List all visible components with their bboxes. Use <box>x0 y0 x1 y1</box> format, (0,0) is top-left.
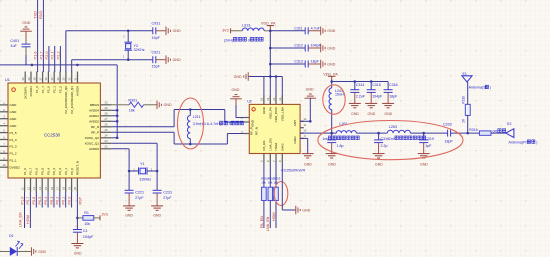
svg-text:AVDD4: AVDD4 <box>89 109 99 113</box>
ground for C221 <box>123 206 135 210</box>
svg-text:P1_6: P1_6 <box>35 86 39 93</box>
inductor L211 3.9nH shunt <box>189 110 191 116</box>
svg-text:BIAS: BIAS <box>281 143 285 150</box>
svg-text:P0_0: P0_0 <box>70 168 74 175</box>
svg-text:15pF: 15pF <box>152 65 161 69</box>
svg-text:HGM: HGM <box>26 215 30 224</box>
svg-text:P0_6: P0_6 <box>35 168 39 175</box>
svg-text:RF_N: RF_N <box>255 127 259 135</box>
svg-text:P0.3: P0.3 <box>50 197 54 205</box>
svg-text:104pF: 104pF <box>311 44 322 48</box>
U2 right pin stubs <box>300 121 304 138</box>
annotation big ellipse output filter <box>318 121 463 160</box>
annotation ellipse around R253 <box>274 182 288 206</box>
svg-text:PA_EN: PA_EN <box>260 216 264 228</box>
svg-text:0: 0 <box>229 122 231 126</box>
svg-text:10: 10 <box>3 163 6 167</box>
svg-text:): ) <box>536 140 537 144</box>
svg-text:U2: U2 <box>247 100 252 104</box>
svg-text:C320: C320 <box>443 122 452 126</box>
wire U2 bottom pin 3 <box>275 163 277 187</box>
resistor R252 <box>268 187 273 200</box>
inductor L263 2nH <box>387 130 410 133</box>
wire pin9 to GND <box>300 137 308 139</box>
svg-text:32MHz: 32MHz <box>139 178 151 182</box>
svg-text:14: 14 <box>272 97 276 100</box>
svg-text:GND: GND <box>173 58 181 62</box>
capacitor C318 2.2p <box>378 133 380 140</box>
svg-text:RBIAS: RBIAS <box>90 103 99 107</box>
svg-text:P1_3: P1_3 <box>10 145 17 149</box>
svg-text:3V3: 3V3 <box>102 212 108 216</box>
capacitor C319 1pF <box>423 133 425 140</box>
ground for U2 pin5 <box>296 206 300 215</box>
svg-text:P1_0: P1_0 <box>23 168 27 175</box>
svg-text:GND: GND <box>22 21 30 25</box>
svg-text:3.9nH(3.6-4.7nH): 3.9nH(3.6-4.7nH) <box>193 122 222 126</box>
wire P0.0 column <box>71 192 73 208</box>
svg-text:104pF: 104pF <box>372 95 383 99</box>
svg-text:19: 19 <box>67 187 71 190</box>
wire RF main line <box>300 132 336 134</box>
svg-text:GND: GND <box>293 136 297 144</box>
svg-text:3V3: 3V3 <box>222 29 228 33</box>
wire U2 bottom pin 2 <box>269 163 271 187</box>
svg-text:GND: GND <box>327 46 335 50</box>
junction dots on bus <box>31 64 34 67</box>
wire TXD column <box>37 0 39 72</box>
svg-text:36: 36 <box>44 77 48 80</box>
svg-text:VDD_LNA: VDD_LNA <box>281 106 285 121</box>
capacitor C313 18pF <box>305 61 308 68</box>
wire XOSC32K top <box>65 31 67 72</box>
svg-text:ANT: ANT <box>293 120 297 126</box>
capacitor C317 1.8p <box>331 133 333 140</box>
svg-text:GND: GND <box>10 103 18 107</box>
capacitor C401 <box>22 44 31 47</box>
ground for C318 <box>373 154 385 158</box>
svg-text:12: 12 <box>26 187 30 190</box>
svg-text:AVDD1: AVDD1 <box>89 114 99 118</box>
wire XOSC_Q2 to Y1 <box>112 142 158 144</box>
svg-text:C921: C921 <box>152 50 161 54</box>
svg-text:32: 32 <box>67 77 71 80</box>
svg-text:C1: C1 <box>83 229 88 233</box>
svg-text:GND: GND <box>304 162 312 166</box>
svg-text:P0.1: P0.1 <box>61 197 65 205</box>
crystal Y2 32KHz <box>127 31 129 42</box>
svg-text:27: 27 <box>105 117 108 121</box>
svg-text:Y1: Y1 <box>140 162 145 166</box>
svg-text:P1_4: P1_4 <box>10 138 17 142</box>
svg-text:P0_4: P0_4 <box>46 168 50 175</box>
svg-text:R301: R301 <box>128 98 137 102</box>
ground for D1 <box>32 247 36 256</box>
U1 right pin stubs <box>100 105 111 149</box>
wire below R252 <box>269 201 271 228</box>
resistor R253 <box>274 187 279 200</box>
wire C311 row <box>270 30 305 32</box>
svg-text:P0.0: P0.0 <box>67 197 71 205</box>
svg-text:GND: GND <box>153 214 161 218</box>
ground for C311 <box>321 27 325 36</box>
svg-text:CC2530: CC2530 <box>44 133 61 138</box>
ground left of U2 top rail <box>244 72 248 81</box>
svg-text:4.7uF: 4.7uF <box>311 26 321 30</box>
svg-text:10k: 10k <box>261 181 266 185</box>
wire below R251 <box>263 201 265 228</box>
svg-text:13: 13 <box>32 187 36 190</box>
svg-text:RF_P: RF_P <box>91 131 99 135</box>
svg-text:35: 35 <box>50 77 54 80</box>
resistor R1 10k <box>77 217 83 219</box>
wire P2_2 column <box>59 46 61 72</box>
wire RF_P run <box>112 131 175 133</box>
svg-text:27pF: 27pF <box>135 196 144 200</box>
svg-text:32KHz: 32KHz <box>134 48 145 52</box>
svg-text:C316: C316 <box>389 83 398 87</box>
wire RXD column <box>42 0 44 72</box>
wire P0_7 column <box>29 192 31 228</box>
U2 left pin stubs <box>243 118 249 134</box>
svg-text:P2.2: P2.2 <box>55 51 60 59</box>
capacitor C221 27pF <box>128 171 130 190</box>
svg-text:DVDD1: DVDD1 <box>29 86 33 97</box>
svg-text:39: 39 <box>27 77 31 80</box>
wire P0.5 column <box>41 192 43 208</box>
wire XOSC32K bottom <box>71 60 73 72</box>
svg-text:LNA_EN: LNA_EN <box>266 216 270 231</box>
svg-text:34: 34 <box>56 77 60 80</box>
svg-text:1uF: 1uF <box>10 44 17 48</box>
ground for C313 <box>321 60 325 69</box>
svg-text:15nH: 15nH <box>335 93 344 97</box>
svg-text:): ) <box>490 86 491 90</box>
svg-text:37: 37 <box>38 77 42 80</box>
svg-text:40: 40 <box>21 77 25 80</box>
svg-text:15: 15 <box>44 187 48 190</box>
wire P0.2 column <box>59 192 61 208</box>
wire AVDD taps to U1 right pins <box>112 109 118 111</box>
annotation ellipse around L211 <box>178 98 204 149</box>
svg-text:P2_2: P2_2 <box>58 86 62 93</box>
capacitor C231 27pF <box>156 171 158 190</box>
ground for pin9 <box>302 154 314 158</box>
svg-text:GND: GND <box>74 251 82 255</box>
svg-text:C231: C231 <box>163 190 172 194</box>
U2 bottom pin stubs <box>264 154 282 164</box>
svg-text:1pF: 1pF <box>425 144 432 148</box>
svg-text:L313: L313 <box>242 23 250 27</box>
svg-text:GND: GND <box>234 75 242 79</box>
svg-text:C315: C315 <box>372 83 381 87</box>
wire pin12 to GND <box>309 98 311 121</box>
svg-text:38: 38 <box>33 77 37 80</box>
svg-text:13: 13 <box>278 97 282 100</box>
wire C313 row <box>270 63 305 65</box>
crystal Y1 32MHz <box>129 170 138 172</box>
svg-text:29: 29 <box>105 106 108 110</box>
svg-text:10: 10 <box>303 129 306 133</box>
svg-text:P1_5: P1_5 <box>10 131 17 135</box>
svg-text:15: 15 <box>266 97 270 100</box>
svg-text:AVDD6: AVDD6 <box>76 86 80 96</box>
inductor L241 15nH <box>331 82 333 89</box>
wire RESET column <box>76 192 78 218</box>
wire VDD_PA rail <box>332 81 388 83</box>
svg-text:P0_2: P0_2 <box>58 168 62 175</box>
capacitor C921 <box>153 56 156 63</box>
svg-text:2.2uF: 2.2uF <box>356 95 366 99</box>
svg-text:11: 11 <box>304 123 307 127</box>
wire P0.4 column <box>47 192 49 208</box>
svg-text:GND: GND <box>10 124 18 128</box>
svg-text:31: 31 <box>73 77 77 80</box>
wire U2 top rail <box>249 76 283 78</box>
svg-text:P1_1: P1_1 <box>10 159 17 163</box>
svg-text:P2_3/XOSC32K_Q2: P2_3/XOSC32K_Q2 <box>64 86 68 114</box>
ground for C314 <box>349 103 361 107</box>
svg-text:C314: C314 <box>356 83 365 87</box>
svg-text:33: 33 <box>62 77 66 80</box>
svg-text:GND: GND <box>173 29 181 33</box>
svg-text:10k: 10k <box>268 181 273 185</box>
svg-text:GND: GND <box>327 62 335 66</box>
resistor R301 16k <box>112 104 129 106</box>
svg-text:10k: 10k <box>84 222 90 226</box>
svg-text:GND: GND <box>232 88 240 92</box>
svg-text:TXD: TXD <box>32 11 37 19</box>
capacitor C314 2.2uF <box>354 82 356 90</box>
svg-text:C221: C221 <box>135 190 144 194</box>
wire RF_N run <box>112 126 175 128</box>
svg-text:P0.2: P0.2 <box>56 197 60 205</box>
svg-text:RF_P: RF_P <box>250 127 254 135</box>
wire R310 to main line <box>467 115 469 133</box>
svg-text:GND: GND <box>164 103 172 107</box>
svg-text:HGM: HGM <box>274 143 278 151</box>
ground for C231 <box>151 206 163 210</box>
wire U2 pin5 to ground <box>281 163 283 210</box>
svg-text:GND: GND <box>125 214 133 218</box>
svg-text:GND: GND <box>327 29 335 33</box>
svg-text:11: 11 <box>20 187 24 190</box>
svg-text:XOSC_Q1: XOSC_Q1 <box>85 142 100 146</box>
capacitor C315 104pF <box>370 82 372 90</box>
svg-text:12: 12 <box>303 117 306 121</box>
wire P0.6 column <box>35 192 37 208</box>
svg-text:HGM: HGM <box>272 212 276 221</box>
svg-text:18pF: 18pF <box>311 60 320 64</box>
wire P0.3 column <box>53 192 55 208</box>
capacitor C1 104pF <box>73 230 82 233</box>
svg-text:24: 24 <box>105 134 108 138</box>
wire C312 row <box>270 47 305 49</box>
svg-text:GND: GND <box>306 88 314 92</box>
U1 left pin stubs <box>0 105 8 167</box>
svg-text:18pF: 18pF <box>389 95 398 99</box>
ground for C315 <box>365 103 377 107</box>
svg-text:P0.6: P0.6 <box>32 197 36 205</box>
svg-text:P0.7: P0.7 <box>26 197 30 205</box>
svg-text:C318: C318 <box>381 137 390 141</box>
ground for C921 <box>166 55 170 64</box>
svg-text:18pF: 18pF <box>444 140 453 144</box>
svg-text:P0_3: P0_3 <box>52 168 56 175</box>
svg-text:P2_4/XOSC32K_Q1: P2_4/XOSC32K_Q1 <box>70 86 74 114</box>
svg-text:AVDD3: AVDD3 <box>89 147 99 151</box>
U2 top pin stubs <box>264 96 282 105</box>
svg-text:VDD_PA: VDD_PA <box>269 106 273 119</box>
wire R316 to E2 <box>491 132 506 134</box>
inductor L261 1nH <box>336 131 356 134</box>
svg-text:GND: GND <box>375 162 383 166</box>
power port 3V3 at R1 <box>99 215 101 220</box>
svg-text:GND: GND <box>351 112 359 116</box>
svg-text:E2: E2 <box>507 122 511 126</box>
svg-text:P1.0: P1.0 <box>20 197 24 205</box>
wire E1 to R310 <box>467 82 469 104</box>
svg-text:P2.0: P2.0 <box>44 51 49 60</box>
svg-text:26: 26 <box>105 123 108 127</box>
svg-text:P2_1: P2_1 <box>52 86 56 93</box>
svg-text:GND: GND <box>328 162 336 166</box>
svg-text:P0.4: P0.4 <box>44 197 48 205</box>
svg-text:LNA_EN: LNA_EN <box>269 138 273 150</box>
ground for C316 <box>382 103 394 107</box>
ground for C317 <box>326 154 338 158</box>
svg-text:25: 25 <box>105 128 108 132</box>
op-amp U1 (CC2530 MCU body) <box>8 83 100 178</box>
wire XOSC_Q1 to Y1 <box>112 148 130 150</box>
svg-text:104pF: 104pF <box>83 235 94 239</box>
wire GND to U2 pin1 <box>235 105 237 118</box>
wire DCOUPL bus y65 <box>0 64 117 66</box>
wire P0.1 column <box>65 192 67 208</box>
svg-text:P1.6: P1.6 <box>33 51 38 59</box>
wire U2 bottom pin 1 <box>263 163 265 187</box>
svg-text:R310: R310 <box>461 96 465 104</box>
svg-text:18: 18 <box>61 187 65 190</box>
svg-text:16: 16 <box>260 97 264 100</box>
resistor R251 <box>262 187 267 200</box>
svg-text:GND: GND <box>302 208 310 212</box>
svg-text:P0_7: P0_7 <box>29 168 33 175</box>
svg-text:28: 28 <box>105 112 108 116</box>
svg-text:1.8p: 1.8p <box>337 144 344 148</box>
svg-text:23: 23 <box>105 139 108 143</box>
svg-text:P1.7: P1.7 <box>38 51 43 59</box>
svg-text:L263: L263 <box>389 125 397 129</box>
svg-text:GND: GND <box>368 112 376 116</box>
svg-text:XOSC_Q2: XOSC_Q2 <box>85 136 100 140</box>
annotation ellipse around L241 <box>323 85 345 114</box>
svg-text:GND: GND <box>420 162 428 166</box>
svg-text:P1_2: P1_2 <box>10 152 17 156</box>
capacitor C311 4.7uF <box>305 27 308 34</box>
ground for R301 <box>157 101 161 110</box>
svg-text:GND: GND <box>262 106 266 114</box>
svg-text:P2_0: P2_0 <box>47 86 51 93</box>
svg-text:C311: C311 <box>294 26 302 30</box>
svg-text:VDD_BIAS: VDD_BIAS <box>274 107 278 122</box>
svg-text:GND: GND <box>10 117 18 121</box>
svg-text:16: 16 <box>50 187 54 190</box>
svg-text:P0.5: P0.5 <box>38 197 42 205</box>
svg-text:D1: D1 <box>9 234 14 238</box>
svg-text:C313: C313 <box>294 60 303 64</box>
wire below R253 <box>275 201 277 228</box>
svg-text:DVDD2: DVDD2 <box>10 165 21 169</box>
svg-text:LNA_EN: LNA_EN <box>18 212 22 227</box>
svg-text:27pF: 27pF <box>163 196 172 200</box>
svg-text:16k: 16k <box>129 109 135 113</box>
ground for C319 <box>418 154 430 158</box>
svg-text:30: 30 <box>105 101 108 105</box>
svg-text:P2.1: P2.1 <box>50 51 55 59</box>
svg-text:2.2p: 2.2p <box>381 144 388 148</box>
svg-text:(2nH): (2nH) <box>224 39 233 43</box>
svg-text:L211: L211 <box>193 115 201 119</box>
svg-text:P0_1: P0_1 <box>64 168 68 175</box>
svg-text:GND: GND <box>38 250 46 254</box>
svg-text:R1: R1 <box>84 211 89 215</box>
wires U2 top pins <box>263 77 265 105</box>
wire P2_1 column <box>54 46 56 72</box>
capacitor C320 18pF series <box>448 130 451 137</box>
transistor U2 (CC2592 RF frontend body) <box>249 104 300 153</box>
svg-text:C319: C319 <box>425 137 434 141</box>
svg-text:22: 22 <box>105 145 108 149</box>
svg-text:20: 20 <box>73 187 77 190</box>
svg-text:PA_EN: PA_EN <box>262 141 266 151</box>
capacitor C312 104pF <box>305 45 308 52</box>
ground for C931 <box>166 27 170 36</box>
svg-text:C931: C931 <box>152 21 161 25</box>
svg-text:15pF: 15pF <box>152 36 161 40</box>
inductor L313 2nH <box>231 30 242 32</box>
svg-text:P0_5: P0_5 <box>40 168 44 175</box>
svg-text:RF_N: RF_N <box>91 125 99 129</box>
wire P1_0 column <box>24 192 26 228</box>
svg-text:GND: GND <box>384 112 392 116</box>
svg-text:0: 0 <box>248 39 250 43</box>
svg-text:GND: GND <box>251 119 255 127</box>
capacitor C931 <box>153 27 156 34</box>
wire VDD_PA spine <box>269 31 271 105</box>
svg-text:U1: U1 <box>5 78 10 82</box>
U1 top pin stubs <box>25 72 77 84</box>
svg-text:DCOUPL: DCOUPL <box>23 86 27 99</box>
svg-text:17: 17 <box>56 187 60 190</box>
svg-text:GND: GND <box>10 110 18 114</box>
wire P2_0 column <box>48 46 50 72</box>
svg-text:C312: C312 <box>294 44 303 48</box>
svg-text:R316: R316 <box>469 128 478 132</box>
ground for C1 <box>71 244 83 248</box>
svg-text:14: 14 <box>38 187 42 190</box>
svg-text:RXD: RXD <box>38 10 43 19</box>
svg-text:CC2592RGVR: CC2592RGVR <box>281 169 306 173</box>
svg-text:AVDD2: AVDD2 <box>89 120 99 124</box>
svg-text:RST: RST <box>79 196 83 204</box>
ground for C312 <box>321 44 325 53</box>
svg-text:C401: C401 <box>10 39 19 43</box>
resistor R310 <box>465 104 470 115</box>
capacitor C316 18pF <box>387 82 389 90</box>
U1 bottom pin stubs <box>25 178 78 192</box>
svg-text:P1_7: P1_7 <box>41 86 45 93</box>
